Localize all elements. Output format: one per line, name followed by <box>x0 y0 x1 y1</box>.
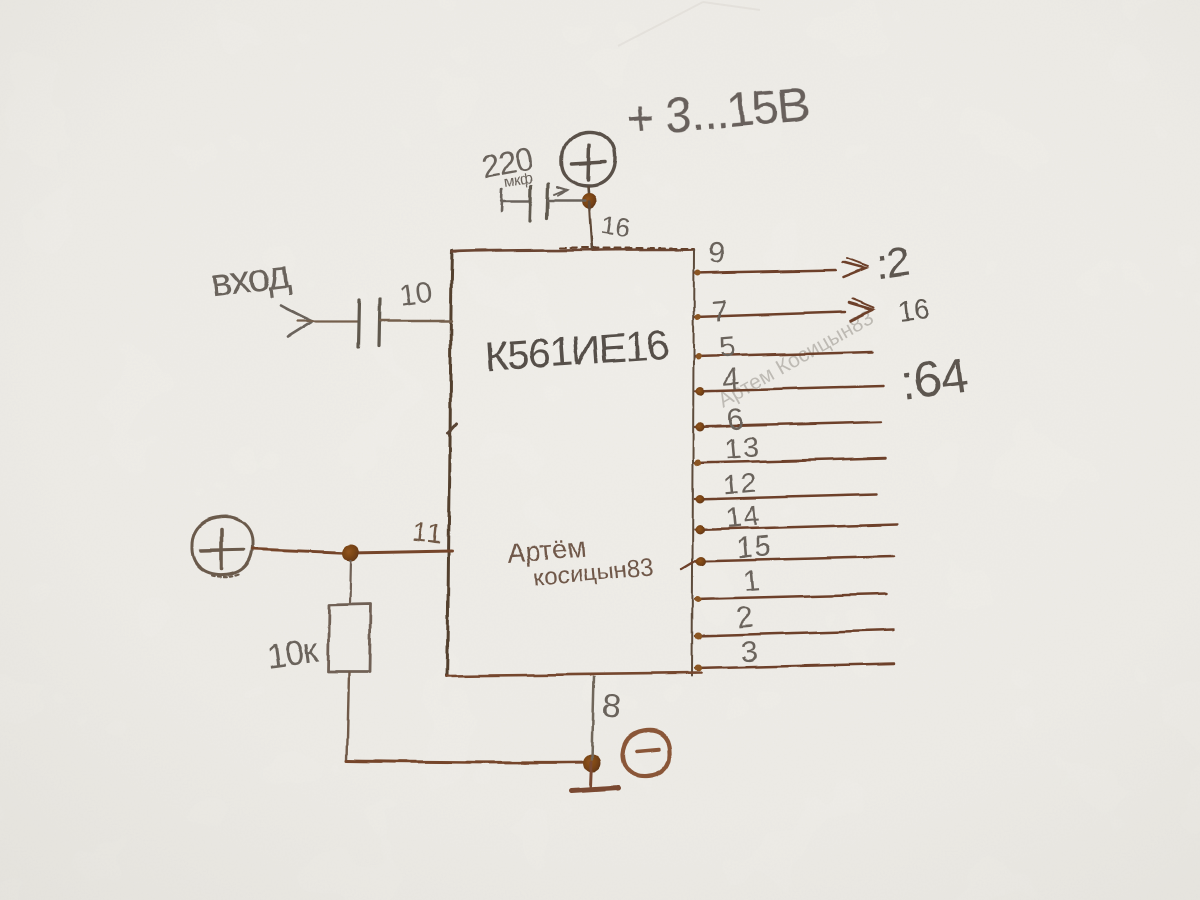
pin 12 stub dot <box>696 496 705 505</box>
IC label К561ИЕ16 <box>483 321 668 380</box>
pin 9 wire with arrow (:2 output) <box>695 258 868 277</box>
pin 2 label <box>736 602 755 635</box>
polarity arrow of C1 <box>554 187 567 196</box>
pin 7 stub dot <box>695 314 701 320</box>
pin 5 stub dot <box>695 354 701 360</box>
supply label +3...15В <box>624 78 811 147</box>
value label 220 мкф <box>479 141 535 191</box>
svg-text:16: 16 <box>896 293 930 327</box>
pin 13 label <box>724 431 763 466</box>
pin 5 wire <box>695 352 873 357</box>
node junction ground <box>583 754 601 772</box>
pin 10 label <box>397 276 435 313</box>
pin 11 label <box>411 517 446 550</box>
watermark Артем Косицын83 <box>714 306 877 412</box>
svg-text:2: 2 <box>736 602 755 635</box>
wire input to C2 <box>298 320 357 322</box>
paper crease top <box>618 2 760 46</box>
op-amp U1 box К561ИЕ16 (IC body) <box>447 248 701 676</box>
pin 2 wire <box>695 630 894 636</box>
pin 6 wire <box>695 422 881 427</box>
pin 3 wire <box>695 663 894 668</box>
pin 3 label <box>740 636 759 669</box>
pin 6 stub dot <box>696 423 705 432</box>
node junction (pin 11 / R1) <box>343 545 360 562</box>
pin 15 label <box>736 530 775 565</box>
svg-text:1: 1 <box>742 565 761 598</box>
pin 1 stub dot <box>695 596 702 603</box>
node junction top (Vcc node) <box>582 194 597 209</box>
input label вход <box>209 253 293 306</box>
ground <box>571 762 618 791</box>
wire bottom horizontal to ground node <box>347 761 592 762</box>
svg-text:9: 9 <box>707 236 727 270</box>
pin 12 wire <box>695 495 877 500</box>
pin 1 wire <box>695 594 886 599</box>
pin 12 label <box>721 467 760 502</box>
svg-text:5: 5 <box>718 331 738 365</box>
pin 14 stub dot <box>695 525 705 535</box>
pin 8 label <box>600 686 622 725</box>
svg-text:4: 4 <box>722 363 742 397</box>
input arrow <box>281 305 312 337</box>
svg-text:16: 16 <box>599 209 633 243</box>
pin 2 stub dot <box>695 633 702 640</box>
terminal + (left, reset) <box>192 517 253 578</box>
wire C1 to junction <box>548 200 585 202</box>
pin 1 label <box>742 565 761 598</box>
label 16 <box>896 293 930 327</box>
wire to pin 16 <box>589 201 592 250</box>
wire from + terminal down <box>588 186 589 201</box>
svg-text::64: :64 <box>898 347 971 411</box>
terminal − (bottom) <box>623 730 670 776</box>
pin 15 stub dot <box>696 556 706 566</box>
resistor R1 <box>328 604 371 672</box>
svg-text:10к: 10к <box>265 631 322 676</box>
pin 7 wire with arrow (16 output) <box>695 299 874 321</box>
pin 4 stub dot <box>696 387 705 396</box>
pin 9 stub dot <box>695 270 701 276</box>
wire + terminal to pin 11 <box>253 549 452 553</box>
pin 13 wire <box>695 458 886 463</box>
svg-text:8: 8 <box>600 686 622 725</box>
pin 4 wire (:64 output) <box>695 386 884 391</box>
pin 13 stub dot <box>695 460 702 467</box>
wire C2 to pin 10 <box>379 320 452 322</box>
stray tick on left edge <box>448 424 456 433</box>
power terminal + (top) <box>562 132 615 186</box>
pin 14 wire <box>695 524 897 530</box>
pin 3 stub dot <box>695 665 702 672</box>
pin 16 label <box>599 209 633 243</box>
pin 15 wire <box>682 556 893 569</box>
svg-text:13: 13 <box>724 431 763 466</box>
svg-text:7: 7 <box>710 295 730 329</box>
svg-text:11: 11 <box>411 517 446 550</box>
wire pin 8 down <box>592 676 594 760</box>
svg-text:15: 15 <box>736 530 775 565</box>
label :2 <box>873 237 913 290</box>
pin 9 label <box>707 236 727 270</box>
pin 7 label <box>710 295 730 329</box>
svg-text:12: 12 <box>721 467 760 502</box>
capacitor C1 220мкф: left terminal bar <box>501 189 530 211</box>
wire junction to R1 <box>350 560 351 604</box>
pin 14 label <box>724 500 763 535</box>
pin 4 label <box>722 363 742 397</box>
svg-text:14: 14 <box>724 500 763 535</box>
value label 10к <box>265 631 322 676</box>
label :64 <box>898 347 971 411</box>
pin 6 label <box>726 403 746 437</box>
wire R1 down <box>347 672 349 761</box>
capacitor C1 plates <box>530 184 548 221</box>
signature Артём косицын83 (inside IC) <box>506 527 655 594</box>
svg-text:3: 3 <box>740 636 759 669</box>
capacitor C2 plates <box>358 299 379 347</box>
svg-text:10: 10 <box>397 276 435 313</box>
pin 5 label <box>718 331 738 365</box>
